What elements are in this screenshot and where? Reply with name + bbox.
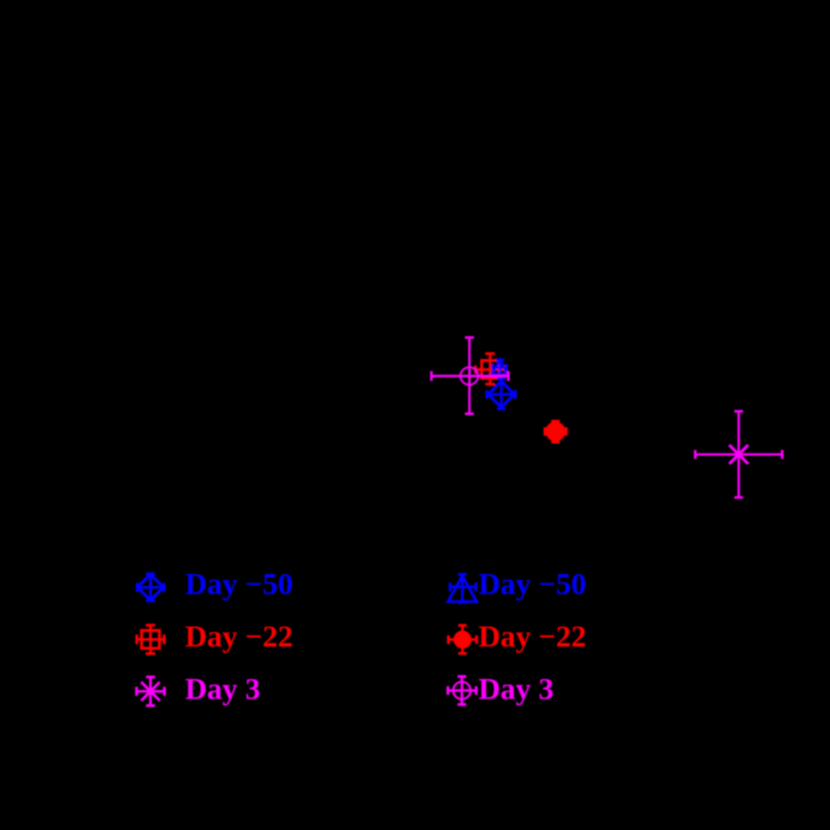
svg-text:Day 3: Day 3 <box>478 672 553 706</box>
data point: magenta asterisk (Day 3) with error bars <box>695 411 782 497</box>
legend symbol: blue open diamond with error bars (left column, Day -50) <box>137 574 164 601</box>
data point: magenta open circle (Day 3) with error bars <box>431 338 508 414</box>
legend symbol: red filled circle with error bars (right column, Day -22) <box>448 625 476 653</box>
svg-text:Day 3: Day 3 <box>185 672 260 706</box>
legend symbol: magenta asterisk with error bars (left column, Day 3) <box>137 677 165 706</box>
data point: blue open triangle (Day -50) with error bars <box>492 360 507 375</box>
legend symbol: magenta open circle with error bars (right column, Day 3) <box>448 677 476 705</box>
legend symbol: blue open triangle with error bars (right column, Day -50) <box>448 574 477 602</box>
svg-text:Day −22: Day −22 <box>478 620 586 654</box>
svg-text:Day −50: Day −50 <box>185 567 293 601</box>
data point: red filled circle (Day -22) with error bars <box>545 421 566 442</box>
data point: blue open diamond (Day -50) with error bars <box>487 379 516 409</box>
data point: red open square (Day -22) with error bars <box>476 354 506 385</box>
svg-text:Day −50: Day −50 <box>478 567 586 601</box>
legend symbol: red open square with error bars (left column, Day -22) <box>137 625 164 653</box>
svg-text:Day −22: Day −22 <box>185 620 293 654</box>
